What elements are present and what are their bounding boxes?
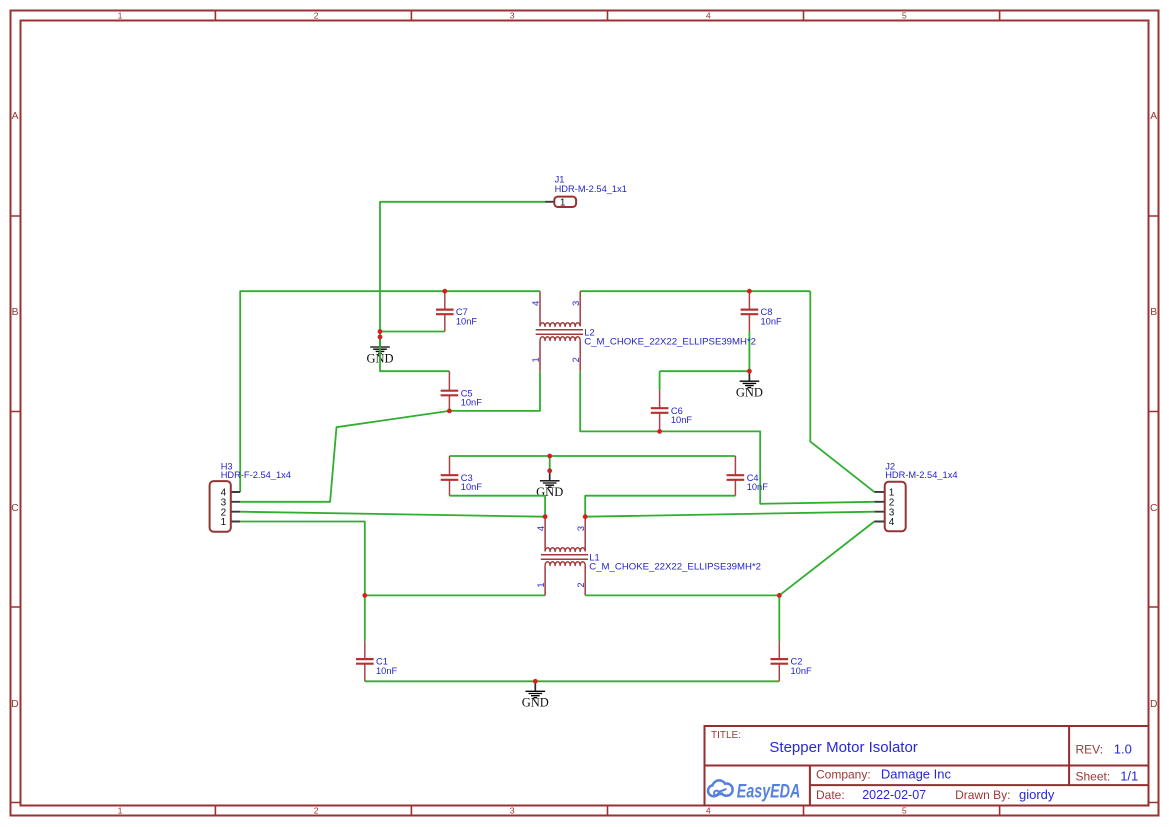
ground GND1 <box>366 337 393 365</box>
junction GND3 attach <box>547 468 552 473</box>
wire top bus left: H3.4 riser and run to L2 pin4 <box>240 291 540 492</box>
wire L2 pin2 down and across to J2.2 <box>580 371 874 504</box>
junction GND2 attach <box>747 369 752 374</box>
svg-text:HDR-M-2.54_1x4: HDR-M-2.54_1x4 <box>885 470 957 480</box>
svg-text:10nF: 10nF <box>671 415 693 425</box>
ground GND2 <box>736 371 763 399</box>
svg-text:Damage Inc: Damage Inc <box>881 767 952 782</box>
svg-text:C: C <box>1150 503 1158 514</box>
choke L2 <box>531 291 756 371</box>
capacitor C6 <box>651 390 693 432</box>
wire C3/C4 tops with GND3 <box>450 456 736 471</box>
svg-text:3: 3 <box>576 526 586 531</box>
capacitor C7 <box>436 291 477 331</box>
svg-text:1: 1 <box>221 517 227 528</box>
svg-text:2: 2 <box>314 806 319 816</box>
svg-text:REV:: REV: <box>1076 743 1104 757</box>
svg-text:10nF: 10nF <box>761 317 783 327</box>
svg-text:giordy: giordy <box>1019 787 1055 802</box>
svg-text:5: 5 <box>902 806 907 816</box>
wire H3.2 to L1 pin4 <box>240 512 545 517</box>
svg-text:1: 1 <box>560 198 566 209</box>
wire GND1 to C5 top <box>380 337 449 371</box>
junction C7 top <box>442 289 447 294</box>
svg-text:GND: GND <box>522 696 549 710</box>
junction C1 node <box>362 593 367 598</box>
connector J2 <box>874 461 957 531</box>
svg-text:D: D <box>11 699 18 710</box>
svg-text:C_M_CHOKE_22X22_ELLIPSE39MH*2: C_M_CHOKE_22X22_ELLIPSE39MH*2 <box>584 337 756 348</box>
svg-text:EasyEDA: EasyEDA <box>737 781 801 803</box>
svg-text:1: 1 <box>118 10 123 20</box>
connector H3 <box>210 461 291 531</box>
junction L1 pin3 <box>583 514 588 519</box>
svg-text:1: 1 <box>118 806 123 816</box>
wire J1 to GND1 <box>380 202 545 337</box>
svg-text:A: A <box>1150 111 1157 122</box>
svg-text:Stepper Motor Isolator: Stepper Motor Isolator <box>769 739 917 756</box>
capacitor C8 <box>741 291 782 331</box>
svg-text:2: 2 <box>314 10 319 20</box>
svg-text:1.0: 1.0 <box>1114 742 1132 757</box>
wire C3 bottom to L1 pin4 junction <box>450 496 546 517</box>
wire top bus right: L2 pin3 to C8 and corner <box>580 290 810 292</box>
svg-text:A: A <box>12 111 19 122</box>
svg-text:C: C <box>11 503 19 514</box>
svg-text:Date:: Date: <box>816 788 845 802</box>
capacitor C1 <box>356 641 398 681</box>
svg-text:10nF: 10nF <box>456 317 478 327</box>
capacitor C4 <box>727 456 769 496</box>
svg-text:HDR-M-2.54_1x1: HDR-M-2.54_1x1 <box>555 184 627 194</box>
svg-text:4: 4 <box>536 526 546 531</box>
choke L1 <box>536 517 761 596</box>
wire ground bus bottom <box>365 680 780 682</box>
svg-text:10nF: 10nF <box>747 482 769 492</box>
wire bottom run left: node to L1 pin1 <box>365 594 545 596</box>
wire C8 bottom to GND2 junction <box>748 331 750 371</box>
svg-text:D: D <box>1150 699 1157 710</box>
svg-text:TITLE:: TITLE: <box>711 730 741 741</box>
svg-text:4: 4 <box>889 517 895 528</box>
svg-text:3: 3 <box>571 301 581 306</box>
connector J1 <box>545 175 627 209</box>
junction GND1 wire <box>378 329 383 334</box>
svg-text:4: 4 <box>706 10 711 20</box>
wire C4 bottom to L1 pin3 junction <box>585 496 735 517</box>
wire C5 junction to L2 pin1 <box>449 371 540 411</box>
svg-text:3: 3 <box>510 806 515 816</box>
svg-text:2022-02-07: 2022-02-07 <box>862 788 926 802</box>
svg-text:Drawn By:: Drawn By: <box>955 788 1010 802</box>
ground GND4 <box>522 681 549 709</box>
svg-text:B: B <box>1150 307 1157 318</box>
svg-text:1/1: 1/1 <box>1120 768 1138 783</box>
junction C6 bottom <box>657 429 662 434</box>
junction C2 node <box>777 593 782 598</box>
wire C6 top to GND2 <box>660 371 750 390</box>
junction GND4 attach <box>533 679 538 684</box>
svg-text:C_M_CHOKE_22X22_ELLIPSE39MH*2: C_M_CHOKE_22X22_ELLIPSE39MH*2 <box>589 562 761 573</box>
svg-text:3: 3 <box>510 10 515 20</box>
svg-text:5: 5 <box>902 10 907 20</box>
svg-text:GND: GND <box>536 485 563 499</box>
svg-text:10nF: 10nF <box>461 398 483 408</box>
ground GND3 <box>536 471 563 499</box>
svg-text:Sheet:: Sheet: <box>1076 769 1111 783</box>
junction C8 top <box>747 289 752 294</box>
svg-text:HDR-F-2.54_1x4: HDR-F-2.54_1x4 <box>221 470 291 480</box>
svg-text:Company:: Company: <box>816 768 871 782</box>
wire top bus to J2.1 <box>810 291 874 492</box>
svg-text:4: 4 <box>706 806 711 816</box>
svg-text:2: 2 <box>576 582 586 587</box>
capacitor C5 <box>441 371 483 411</box>
svg-text:10nF: 10nF <box>376 666 398 676</box>
svg-text:4: 4 <box>531 301 541 306</box>
junction L1 pin4 <box>543 514 548 519</box>
capacitor C3 <box>441 456 483 496</box>
svg-text:1: 1 <box>531 357 541 362</box>
svg-text:10nF: 10nF <box>791 666 813 676</box>
junction C3-C4 bus <box>547 454 552 459</box>
svg-text:B: B <box>12 307 19 318</box>
wire C7 bottom to GND1 <box>380 331 445 333</box>
wire bottom run right: L1 pin2 to C2 node <box>585 594 779 596</box>
wire C2 node down <box>778 595 780 641</box>
wire C2 node to J2.4 <box>779 522 874 596</box>
junction GND1 attach <box>378 335 383 340</box>
wire C5 bottom to H3.3 <box>240 411 449 502</box>
wire L1 pin3 to J2.3 <box>585 512 874 517</box>
svg-text:GND: GND <box>736 386 763 400</box>
junction C5 bottom <box>447 409 452 414</box>
title block <box>705 726 1149 806</box>
wire H3.1 down to C1 node <box>240 522 365 642</box>
svg-text:2: 2 <box>571 357 581 362</box>
EasyEDA logo <box>709 781 800 803</box>
svg-text:1: 1 <box>536 582 546 587</box>
svg-text:10nF: 10nF <box>461 482 483 492</box>
capacitor C2 <box>771 641 813 681</box>
